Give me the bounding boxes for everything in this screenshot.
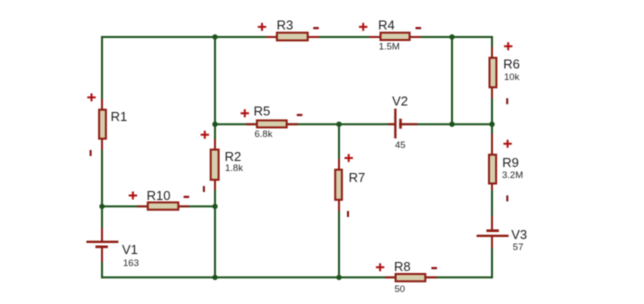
battery V2 [388,93,418,151]
resistor R9 [489,134,523,201]
svg-text:R7: R7 [349,170,366,185]
resistor R6 [490,42,520,104]
wire x=215 vertical (R2 branch, top rail to bottom rail) [214,37,216,277]
junction node bottom x215 [212,275,217,280]
svg-text:V3: V3 [511,227,527,242]
svg-text:V2: V2 [392,93,408,108]
wire left vertical upper (R1/V1 branch above battery) [101,37,103,242]
wire middle left segment (R5 row up to V2) [215,123,395,125]
svg-text:1.8k: 1.8k [225,163,243,174]
svg-text:3.2M: 3.2M [502,170,523,181]
resistor R4 [359,18,421,53]
junction node R10 right x215 [212,204,217,209]
wire bottom rail [102,276,492,278]
svg-text:R10: R10 [147,188,171,203]
svg-text:163: 163 [123,258,139,269]
wire middle right segment (V2 to right rail) [400,123,492,125]
svg-text:1.5M: 1.5M [379,42,400,53]
svg-text:R9: R9 [502,155,519,170]
resistor R1 [87,93,127,156]
svg-text:R1: R1 [111,109,128,124]
battery V1 [86,228,138,269]
wire top (node between R1, R3 top rail) [102,36,492,38]
svg-text:R5: R5 [254,104,271,119]
wire R10 row (x=102 to x=215) [102,205,215,207]
svg-text:50: 50 [395,284,406,295]
resistor R8 [376,259,437,295]
wire left vertical lower (below V1 battery) [101,247,103,277]
svg-text:R2: R2 [225,149,242,164]
junction node bottom x339 [336,275,341,280]
svg-text:57: 57 [513,242,524,253]
wire x=339 vertical (R7 branch) [338,124,340,277]
svg-text:R6: R6 [503,57,520,72]
resistor R3 [258,18,319,41]
resistor R10 [129,188,190,210]
resistor R2 [201,131,244,192]
junction node middle x492 [489,122,494,127]
resistor R5 [241,104,303,141]
battery V3 [477,216,528,253]
svg-text:R8: R8 [394,259,411,274]
svg-text:R4: R4 [378,18,395,33]
svg-text:R3: R3 [277,18,294,33]
wire x=452 vertical [451,37,453,124]
junction node R10 left x102 [99,204,104,209]
resistor R7 [335,154,365,217]
wire right vertical lower (below V3 battery) [491,236,493,277]
junction node top x215 [212,34,217,39]
wire right vertical upper (R6 branch) [491,37,493,124]
junction node top x452 [449,34,454,39]
junction node middle x452 [449,122,454,127]
svg-text:10k: 10k [504,72,520,83]
junction node middle x339 [336,122,341,127]
svg-text:6.8k: 6.8k [255,129,273,140]
junction node middle x215 [212,122,217,127]
wire right vertical middle (R9 branch above V3) [491,124,493,230]
svg-text:V1: V1 [122,242,138,257]
svg-text:45: 45 [395,140,406,151]
